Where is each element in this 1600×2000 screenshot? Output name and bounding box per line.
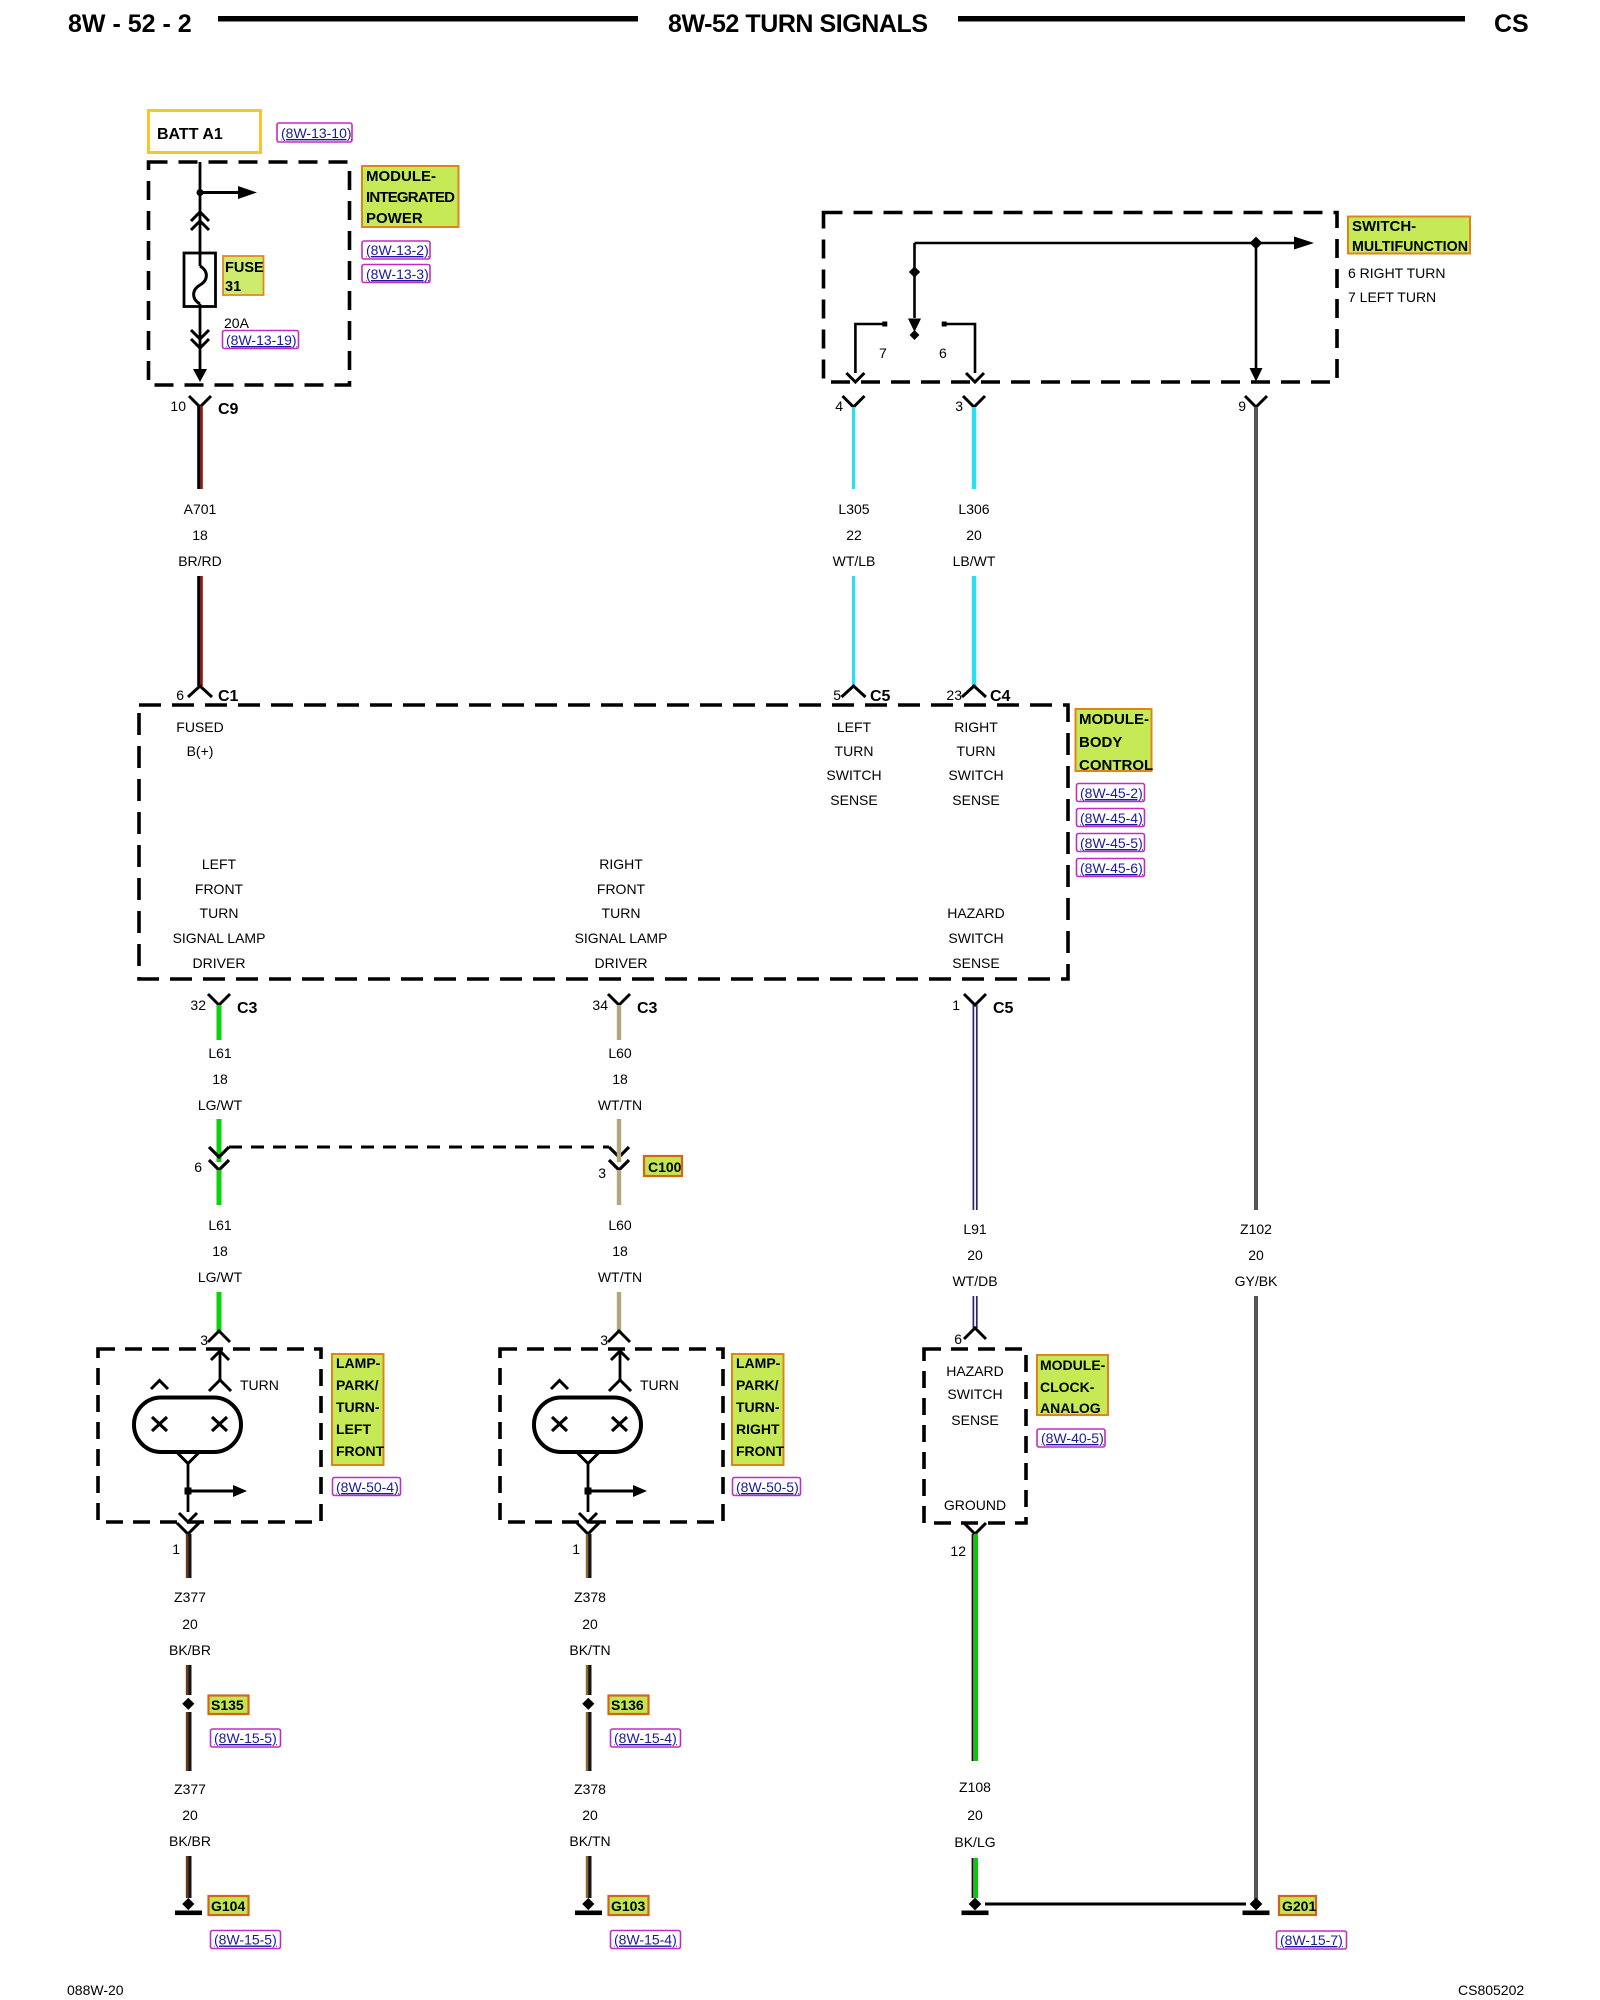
- svg-text:HAZARD: HAZARD: [946, 1363, 1004, 1379]
- wire L61 seg2: [217, 1119, 222, 1162]
- svg-text:6: 6: [939, 345, 947, 361]
- svg-text:BR/RD: BR/RD: [178, 553, 222, 569]
- wire B+ feed inside TIPM: [199, 162, 202, 266]
- lamp right turn input arrow: [611, 1351, 629, 1360]
- svg-text:C5: C5: [993, 1000, 1014, 1017]
- wire pin9 drop: [1255, 243, 1258, 368]
- svg-text:20A: 20A: [224, 315, 250, 331]
- wire Z377 20 BK/BR seg1: [186, 1534, 188, 1578]
- node junction dot: [197, 189, 204, 196]
- lamp left ground lead: [178, 1453, 199, 1464]
- svg-text:(8W-13-10): (8W-13-10): [281, 125, 352, 141]
- svg-text:FRONT: FRONT: [336, 1443, 385, 1459]
- svg-text:Z378: Z378: [574, 1589, 606, 1605]
- svg-text:TURN: TURN: [200, 905, 239, 921]
- svg-text:(8W-15-4): (8W-15-4): [614, 1932, 677, 1948]
- svg-text:6 RIGHT TURN: 6 RIGHT TURN: [1348, 265, 1446, 281]
- link 8W-13-19: [223, 331, 299, 349]
- wire L306 lower: [972, 576, 976, 686]
- lamp right park terminal caret: [551, 1381, 568, 1390]
- svg-text:(8W-45-4): (8W-45-4): [1080, 810, 1143, 826]
- svg-text:(8W-15-5): (8W-15-5): [214, 1730, 277, 1746]
- svg-text:8W - 52 - 2: 8W - 52 - 2: [68, 10, 192, 38]
- svg-text:G104: G104: [211, 1898, 245, 1914]
- svg-text:CS: CS: [1494, 10, 1529, 38]
- svg-text:32: 32: [190, 997, 206, 1013]
- svg-text:20: 20: [582, 1616, 598, 1632]
- svg-text:LEFT: LEFT: [837, 719, 872, 735]
- lamp left turn input arrow: [211, 1351, 229, 1360]
- svg-text:WT/TN: WT/TN: [598, 1097, 642, 1113]
- svg-text:L61: L61: [208, 1045, 232, 1061]
- connector label C100: [644, 1156, 682, 1176]
- svg-text:(8W-15-5): (8W-15-5): [214, 1932, 277, 1948]
- module label MODULE-INTEGRATED POWER: [362, 166, 459, 227]
- svg-text:SWITCH: SWITCH: [947, 1386, 1002, 1402]
- wire branch arrow right: [200, 191, 238, 194]
- svg-text:(8W-15-7): (8W-15-7): [1280, 1932, 1343, 1948]
- ground label G104: [209, 1896, 249, 1915]
- svg-text:L91: L91: [963, 1221, 987, 1237]
- svg-text:FRONT: FRONT: [195, 881, 244, 897]
- svg-text:MODULE-: MODULE-: [1040, 1357, 1106, 1373]
- wire switch output bus: [915, 242, 1295, 245]
- svg-text:(8W-45-2): (8W-45-2): [1080, 785, 1143, 801]
- link 8W-15-4: [611, 1931, 681, 1949]
- svg-text:SENSE: SENSE: [952, 792, 999, 808]
- svg-text:(8W-40-5): (8W-40-5): [1041, 1430, 1104, 1446]
- wire Z378 seg3: [586, 1712, 588, 1771]
- svg-text:C1: C1: [218, 688, 239, 705]
- svg-text:31: 31: [225, 279, 241, 295]
- svg-text:WT/TN: WT/TN: [598, 1269, 642, 1285]
- svg-text:18: 18: [612, 1071, 628, 1087]
- bulb filament X right: [612, 1417, 627, 1431]
- svg-text:TURN: TURN: [835, 743, 874, 759]
- lamp left exit arrow: [179, 1513, 197, 1522]
- svg-text:6: 6: [176, 687, 184, 703]
- svg-text:18: 18: [192, 527, 208, 543]
- svg-text:1: 1: [572, 1541, 580, 1557]
- wire Z378 seg2: [586, 1665, 588, 1695]
- svg-text:S136: S136: [611, 1697, 644, 1713]
- inline connector C100 right half pin 3: [609, 1147, 629, 1157]
- wire switch wiper: [913, 243, 916, 318]
- wire L306 20 LB/WT upper: [972, 407, 976, 489]
- node junction with branch arrow: [585, 1488, 592, 1495]
- svg-text:L61: L61: [208, 1217, 232, 1233]
- svg-text:MULTIFUNCTION: MULTIFUNCTION: [1352, 238, 1468, 255]
- svg-text:C4: C4: [990, 688, 1011, 705]
- svg-text:C5: C5: [870, 688, 891, 705]
- header rule left: [218, 16, 638, 22]
- link 8W-45-2: [1077, 784, 1145, 802]
- svg-text:(8W-13-2): (8W-13-2): [366, 242, 429, 258]
- node junction on bus: [1250, 237, 1263, 250]
- ground label G201: [1279, 1896, 1316, 1915]
- fuse F31 label FUSE 31: [223, 256, 264, 295]
- svg-text:TURN-: TURN-: [736, 1399, 780, 1415]
- lamp left bulb: [134, 1398, 241, 1453]
- svg-text:L306: L306: [958, 501, 989, 517]
- svg-text:FRONT: FRONT: [597, 881, 646, 897]
- svg-text:1: 1: [172, 1541, 180, 1557]
- svg-text:WT/DB: WT/DB: [952, 1273, 997, 1289]
- svg-text:FUSE: FUSE: [225, 260, 264, 276]
- svg-text:S135: S135: [211, 1697, 244, 1713]
- svg-text:8W-52 TURN SIGNALS: 8W-52 TURN SIGNALS: [668, 10, 928, 38]
- svg-text:Z108: Z108: [959, 1779, 991, 1795]
- connector chevrons down: [191, 330, 209, 339]
- module BCM dashed box: [139, 705, 1068, 979]
- svg-text:20: 20: [582, 1807, 598, 1823]
- ground G103 symbol: [582, 1898, 594, 1910]
- svg-text:TURN: TURN: [640, 1377, 679, 1393]
- svg-text:LEFT: LEFT: [202, 856, 237, 872]
- fuse F31 body: [184, 253, 216, 307]
- svg-text:(8W-50-5): (8W-50-5): [736, 1479, 799, 1495]
- wire L305 22 WT/LB upper: [852, 407, 855, 489]
- svg-text:POWER: POWER: [366, 210, 423, 227]
- svg-text:RIGHT: RIGHT: [736, 1421, 780, 1437]
- wire L61 18 LG/WT seg1: [217, 1005, 222, 1040]
- link 8W-45-4: [1077, 809, 1145, 827]
- svg-text:TURN: TURN: [602, 905, 641, 921]
- link 8W-13-10: [277, 123, 352, 142]
- svg-text:5: 5: [833, 687, 841, 703]
- bulb filament X right: [212, 1417, 227, 1431]
- svg-text:Z377: Z377: [174, 1781, 206, 1797]
- lamp right front park/turn dashed box: [500, 1349, 723, 1522]
- svg-text:DRIVER: DRIVER: [595, 955, 648, 971]
- ground label G103: [609, 1896, 649, 1915]
- svg-text:(8W-45-5): (8W-45-5): [1080, 835, 1143, 851]
- svg-text:22: 22: [846, 527, 862, 543]
- svg-text:MODULE-: MODULE-: [366, 168, 436, 185]
- module label MODULE-CLOCK-ANALOG: [1037, 1355, 1108, 1415]
- svg-text:10: 10: [170, 398, 186, 414]
- link 8W-15-5: [211, 1729, 281, 1747]
- svg-text:Z102: Z102: [1240, 1221, 1272, 1237]
- svg-text:FRONT: FRONT: [736, 1443, 785, 1459]
- module clock/hazard switch dashed box: [924, 1349, 1026, 1523]
- lamp label LAMP-PARK/TURN-RIGHT FRONT: [732, 1354, 784, 1465]
- svg-text:SIGNAL LAMP: SIGNAL LAMP: [575, 930, 668, 946]
- svg-text:CS805202: CS805202: [1458, 1982, 1524, 1998]
- svg-text:G201: G201: [1282, 1898, 1316, 1914]
- bulb filament X left: [552, 1417, 567, 1431]
- svg-text:L60: L60: [608, 1045, 632, 1061]
- svg-text:LAMP-: LAMP-: [736, 1355, 781, 1371]
- wire L60 18 WT/TN seg1: [617, 1005, 621, 1040]
- link 8W-40-5: [1037, 1429, 1105, 1447]
- svg-text:20: 20: [967, 1807, 983, 1823]
- svg-text:GY/BK: GY/BK: [1235, 1273, 1278, 1289]
- svg-text:SIGNAL LAMP: SIGNAL LAMP: [173, 930, 266, 946]
- svg-text:9: 9: [1238, 398, 1246, 414]
- svg-text:MODULE-: MODULE-: [1079, 711, 1149, 728]
- svg-text:7: 7: [879, 345, 887, 361]
- module U-TIPM dashed box: [149, 162, 350, 385]
- switch contact 7: [882, 322, 887, 327]
- svg-text:20: 20: [966, 527, 982, 543]
- link 8W-50-5: [733, 1478, 801, 1496]
- svg-text:BODY: BODY: [1079, 734, 1122, 751]
- wire A701 18 BR/RD upper segment: [197, 406, 200, 489]
- svg-text:(8W-50-4): (8W-50-4): [336, 1479, 399, 1495]
- svg-text:TURN-: TURN-: [336, 1399, 380, 1415]
- svg-text:3: 3: [598, 1165, 606, 1181]
- wire A701 lower segment: [197, 576, 200, 686]
- lamp right exit arrow: [579, 1513, 597, 1522]
- svg-text:6: 6: [194, 1159, 202, 1175]
- svg-text:RIGHT: RIGHT: [954, 719, 998, 735]
- svg-text:LG/WT: LG/WT: [198, 1097, 243, 1113]
- svg-text:DRIVER: DRIVER: [193, 955, 246, 971]
- switch S-multifunction dashed box: [824, 213, 1338, 383]
- svg-text:3: 3: [955, 398, 963, 414]
- svg-text:LB/WT: LB/WT: [953, 553, 996, 569]
- svg-text:SWITCH: SWITCH: [948, 767, 1003, 783]
- wire Z108 20 BK/LG seg1: [972, 1534, 974, 1761]
- wire L305 lower: [852, 576, 855, 686]
- splice S136: [582, 1698, 594, 1710]
- svg-text:FUSED: FUSED: [176, 719, 223, 735]
- switch contact 6: [942, 322, 947, 327]
- wire Z377 seg3: [186, 1712, 188, 1771]
- link 8W-13-2: [362, 241, 430, 259]
- svg-text:TURN: TURN: [240, 1377, 279, 1393]
- svg-text:(8W-15-4): (8W-15-4): [614, 1730, 677, 1746]
- svg-text:LEFT: LEFT: [336, 1421, 371, 1437]
- module label MODULE-BODY CONTROL: [1076, 709, 1152, 771]
- svg-text:3: 3: [200, 1332, 208, 1348]
- svg-text:20: 20: [1248, 1247, 1264, 1263]
- link 8W-45-6: [1077, 859, 1145, 877]
- wire Z377 seg2: [186, 1665, 188, 1695]
- lamp right ground lead: [578, 1453, 599, 1464]
- node junction with branch arrow: [185, 1488, 192, 1495]
- wire Z378 seg4: [586, 1856, 588, 1898]
- link 8W-15-4: [611, 1729, 681, 1747]
- svg-text:LAMP-: LAMP-: [336, 1355, 381, 1371]
- svg-text:18: 18: [612, 1243, 628, 1259]
- link 8W-45-5: [1077, 834, 1145, 852]
- svg-text:GROUND: GROUND: [944, 1497, 1006, 1513]
- battery feed BATT A1 box: [149, 111, 261, 153]
- link 8W-50-4: [333, 1478, 401, 1496]
- svg-text:1: 1: [952, 997, 960, 1013]
- wire Z102 lower run: [1254, 1296, 1258, 1899]
- svg-text:TURN: TURN: [957, 743, 996, 759]
- wire L91 20 WT/DB seg1: [972, 1005, 974, 1210]
- svg-text:BK/BR: BK/BR: [169, 1642, 211, 1658]
- wire L91 seg2: [972, 1296, 974, 1328]
- svg-text:SWITCH: SWITCH: [948, 930, 1003, 946]
- switch label SWITCH-MULTIFUNCTION: [1348, 217, 1470, 254]
- svg-text:(8W-13-3): (8W-13-3): [366, 266, 429, 282]
- inline connector C100 left half pin 6: [209, 1147, 229, 1157]
- svg-text:BK/TN: BK/TN: [569, 1833, 610, 1849]
- svg-text:7 LEFT TURN: 7 LEFT TURN: [1348, 289, 1436, 305]
- svg-text:G103: G103: [611, 1898, 645, 1914]
- connector chevrons up: [191, 212, 209, 221]
- wire Z108 seg2: [972, 1858, 974, 1898]
- svg-text:23: 23: [946, 687, 962, 703]
- bulb filament X left: [152, 1417, 167, 1431]
- svg-text:LG/WT: LG/WT: [198, 1269, 243, 1285]
- svg-text:C9: C9: [218, 401, 239, 418]
- svg-text:SENSE: SENSE: [951, 1412, 998, 1428]
- svg-text:BK/TN: BK/TN: [569, 1642, 610, 1658]
- svg-text:BK/BR: BK/BR: [169, 1833, 211, 1849]
- svg-text:C100: C100: [648, 1159, 682, 1175]
- wire L60 seg2: [617, 1119, 621, 1162]
- wire L61 seg3: [217, 1170, 222, 1205]
- svg-text:C3: C3: [637, 1000, 658, 1017]
- ground G201 symbol: [1250, 1898, 1263, 1911]
- lamp left park terminal caret: [151, 1381, 168, 1390]
- header rule right: [958, 16, 1465, 22]
- svg-text:BK/LG: BK/LG: [954, 1834, 995, 1850]
- svg-text:SWITCH-: SWITCH-: [1352, 218, 1416, 235]
- connector C9: [189, 396, 211, 407]
- svg-text:B(+): B(+): [187, 743, 214, 759]
- svg-text:4: 4: [835, 398, 843, 414]
- svg-text:A701: A701: [184, 501, 217, 517]
- svg-text:L305: L305: [838, 501, 869, 517]
- wire arrow down to C9: [193, 369, 207, 382]
- svg-text:088W-20: 088W-20: [67, 1982, 124, 1998]
- ground G201 left leg symbol: [969, 1898, 982, 1911]
- wire L60 seg3: [617, 1170, 621, 1205]
- svg-text:6: 6: [954, 1331, 962, 1347]
- svg-text:18: 18: [212, 1243, 228, 1259]
- svg-text:(8W-13-19): (8W-13-19): [226, 332, 297, 348]
- ground G104 symbol: [182, 1898, 194, 1910]
- wire Z378 20 BK/TN seg1: [586, 1534, 588, 1578]
- svg-text:BATT A1: BATT A1: [157, 126, 223, 143]
- svg-text:20: 20: [182, 1807, 198, 1823]
- svg-text:WT/LB: WT/LB: [833, 553, 876, 569]
- svg-text:(8W-45-6): (8W-45-6): [1080, 860, 1143, 876]
- svg-text:18: 18: [212, 1071, 228, 1087]
- svg-text:PARK/: PARK/: [736, 1377, 779, 1393]
- link 8W-15-5: [211, 1931, 281, 1949]
- lamp left front park/turn dashed box: [98, 1349, 321, 1522]
- svg-text:PARK/: PARK/: [336, 1377, 379, 1393]
- svg-text:Z377: Z377: [174, 1589, 206, 1605]
- wire Z102 20 GY/BK upper run: [1254, 407, 1258, 1210]
- wire L61 seg4: [217, 1292, 222, 1331]
- link 8W-15-7: [1277, 1931, 1347, 1949]
- svg-text:3: 3: [600, 1332, 608, 1348]
- svg-text:C3: C3: [237, 1000, 258, 1017]
- svg-text:CONTROL: CONTROL: [1079, 757, 1153, 774]
- svg-text:CLOCK-: CLOCK-: [1040, 1379, 1095, 1395]
- svg-text:HAZARD: HAZARD: [947, 905, 1005, 921]
- svg-text:L60: L60: [608, 1217, 632, 1233]
- svg-text:12: 12: [950, 1543, 966, 1559]
- svg-text:34: 34: [592, 997, 608, 1013]
- svg-text:20: 20: [967, 1247, 983, 1263]
- wire L60 seg4: [617, 1292, 621, 1331]
- wire Z377 seg4: [186, 1856, 188, 1898]
- svg-text:SENSE: SENSE: [952, 955, 999, 971]
- lamp right bulb: [534, 1398, 641, 1453]
- svg-text:SWITCH: SWITCH: [826, 767, 881, 783]
- wire dashed harness link C100: [229, 1146, 609, 1149]
- wire ground bus to G201: [985, 1903, 1246, 1906]
- svg-text:ANALOG: ANALOG: [1040, 1400, 1101, 1416]
- svg-text:Z378: Z378: [574, 1781, 606, 1797]
- splice S135: [182, 1698, 194, 1710]
- svg-text:20: 20: [182, 1616, 198, 1632]
- link 8W-13-3: [362, 265, 430, 283]
- svg-text:SENSE: SENSE: [830, 792, 877, 808]
- svg-text:RIGHT: RIGHT: [599, 856, 643, 872]
- svg-text:INTEGRATED: INTEGRATED: [366, 189, 455, 206]
- lamp label LAMP-PARK/TURN-LEFT FRONT: [332, 1354, 384, 1465]
